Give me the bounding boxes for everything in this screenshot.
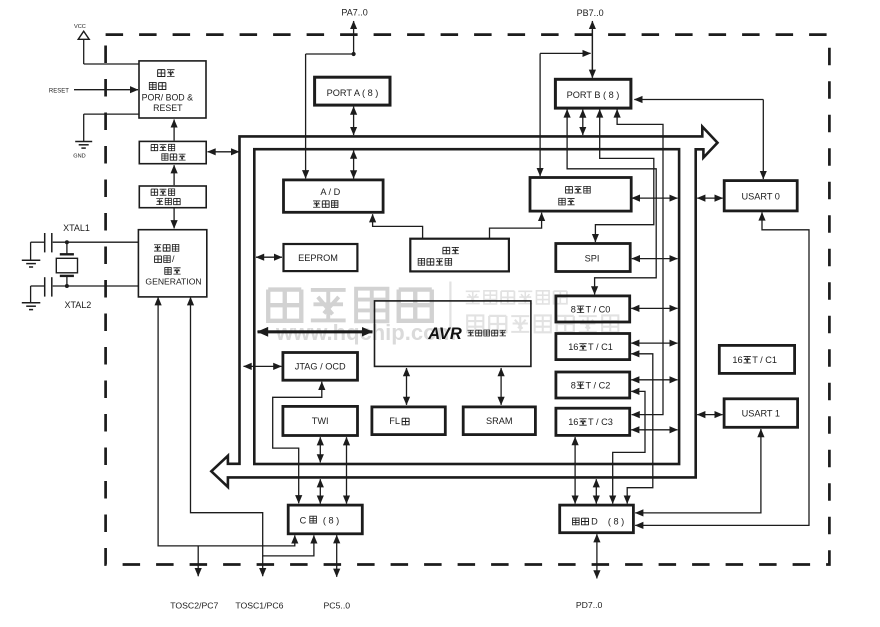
svg-text:PC5..0: PC5..0 xyxy=(324,601,351,611)
svg-text:T / C0: T / C0 xyxy=(586,304,611,314)
svg-text:RESET: RESET xyxy=(153,103,183,113)
svg-text:8: 8 xyxy=(571,304,576,314)
svg-text:TOSC2/PC7: TOSC2/PC7 xyxy=(170,601,218,611)
svg-text:SRAM: SRAM xyxy=(486,416,513,426)
svg-text:TOSC1/PC6: TOSC1/PC6 xyxy=(235,601,283,611)
svg-text:XTAL2: XTAL2 xyxy=(64,300,91,310)
svg-text:RESET: RESET xyxy=(49,88,69,94)
svg-text:GENERATION: GENERATION xyxy=(145,277,201,287)
svg-text:AVR: AVR xyxy=(427,325,462,343)
svg-text:8: 8 xyxy=(571,380,576,390)
svg-text:T / C1: T / C1 xyxy=(752,355,777,365)
svg-text:( 8 ): ( 8 ) xyxy=(608,517,624,527)
svg-text:16: 16 xyxy=(568,342,578,352)
svg-text:EEPROM: EEPROM xyxy=(298,253,338,263)
svg-text:PD7..0: PD7..0 xyxy=(576,600,603,610)
svg-text:PORT A ( 8 ): PORT A ( 8 ) xyxy=(327,88,379,98)
svg-text:T / C2: T / C2 xyxy=(586,380,611,390)
svg-text:POR/ BOD &: POR/ BOD & xyxy=(142,93,193,103)
svg-text:PORT B ( 8 ): PORT B ( 8 ) xyxy=(567,90,620,100)
svg-text:T / C1: T / C1 xyxy=(588,342,613,352)
svg-text:A / D: A / D xyxy=(320,187,340,197)
svg-text:T / C3: T / C3 xyxy=(588,417,613,427)
svg-text:D: D xyxy=(591,517,598,527)
svg-text:FL: FL xyxy=(389,416,400,426)
svg-text:16: 16 xyxy=(568,417,578,427)
svg-text:SPI: SPI xyxy=(585,254,600,264)
svg-text:16: 16 xyxy=(732,355,742,365)
svg-text:PB7..0: PB7..0 xyxy=(577,8,604,18)
svg-text:XTAL1: XTAL1 xyxy=(63,223,90,233)
svg-text:GND: GND xyxy=(73,153,85,159)
svg-text:( 8 ): ( 8 ) xyxy=(323,516,339,526)
svg-text:PA7..0: PA7..0 xyxy=(341,7,367,17)
svg-text:TWI: TWI xyxy=(312,416,329,426)
svg-text:C: C xyxy=(300,516,307,526)
svg-text:USART 0: USART 0 xyxy=(741,191,779,201)
svg-text:USART 1: USART 1 xyxy=(742,409,780,419)
svg-text:JTAG / OCD: JTAG / OCD xyxy=(295,362,346,372)
svg-text:VCC: VCC xyxy=(74,24,86,30)
